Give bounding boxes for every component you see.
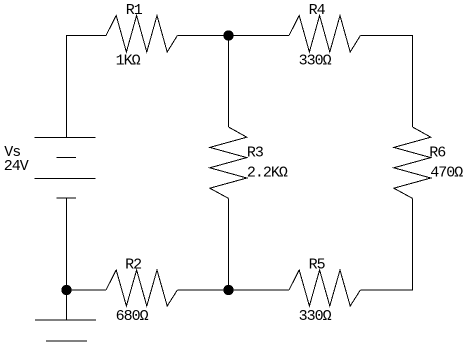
resistor R1 (106, 16, 177, 53)
resistor R3 (210, 127, 247, 198)
wire: R4 to top-right corner and right vertical down to R6 (360, 36, 412, 128)
svg-text:330Ω: 330Ω (299, 52, 332, 69)
svg-text:330Ω: 330Ω (299, 308, 332, 325)
resistor R4 (289, 16, 360, 53)
node B junction dot (bottom middle) (223, 285, 233, 295)
svg-text:R5: R5 (309, 256, 326, 273)
wire: node A to R4 (229, 35, 290, 37)
wire: R3 down to node B (228, 198, 230, 290)
svg-text:24V: 24V (4, 158, 29, 175)
resistor R2 (106, 270, 177, 306)
resistor R5 (289, 270, 360, 306)
svg-text:R4: R4 (309, 2, 326, 19)
battery Vs short plate 2 (bottom) (57, 197, 77, 199)
wire: R6 down right vertical to bottom-right corner, left to R5 (360, 198, 412, 290)
wire: ground stub from node C (66, 290, 68, 320)
wire: left vertical from top corner down to battery top plate (66, 35, 68, 138)
wire: middle vertical from node A down to R3 (228, 36, 230, 128)
svg-text:1KΩ: 1KΩ (116, 52, 141, 69)
svg-text:R3: R3 (247, 145, 264, 162)
svg-text:R6: R6 (429, 145, 446, 162)
svg-text:R1: R1 (126, 2, 143, 19)
resistor R6 (394, 127, 431, 198)
wire: R1 to node A (177, 35, 228, 37)
svg-text:680Ω: 680Ω (116, 308, 149, 325)
node A junction dot (top middle) (223, 30, 233, 40)
node C junction dot (bottom left) (61, 285, 71, 295)
battery Vs short plate 1 (57, 157, 77, 159)
wire: R5 to node B (229, 289, 290, 291)
svg-text:R2: R2 (125, 256, 141, 273)
svg-text:470Ω: 470Ω (430, 165, 463, 182)
wire: top-left horizontal from corner to R1 (66, 35, 107, 37)
battery Vs long plate 2 (35, 178, 96, 180)
ground top bar (35, 319, 96, 321)
battery Vs top long plate (35, 137, 96, 139)
wire: R2 to node C (67, 289, 107, 291)
svg-text:2.2KΩ: 2.2KΩ (247, 165, 288, 182)
wire: battery bottom stub down to node C (66, 198, 68, 290)
wire: node B to R2 (177, 289, 228, 291)
ground bottom bar (46, 340, 87, 342)
